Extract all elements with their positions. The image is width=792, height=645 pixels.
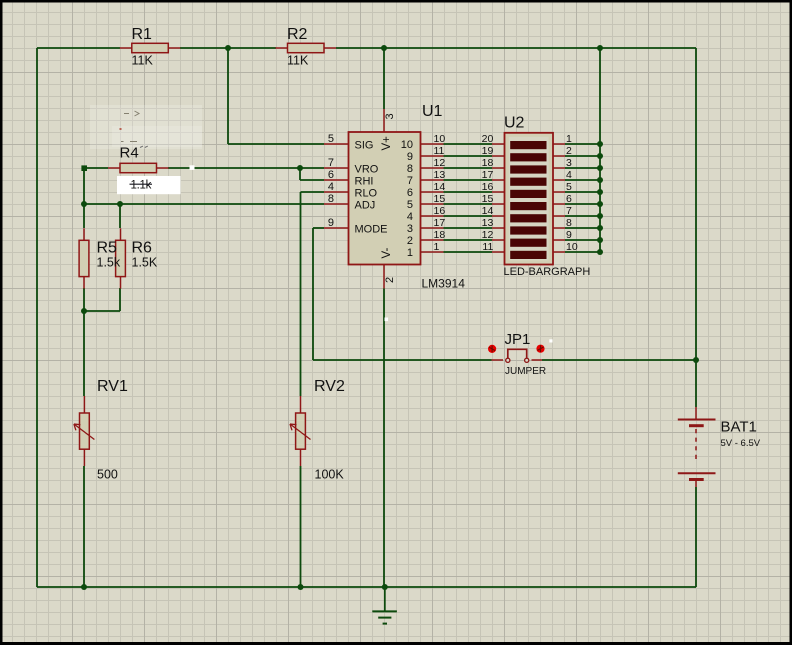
node junction ADJ / R6 column bbox=[117, 201, 123, 207]
node junction RV2/ground rail bbox=[298, 584, 304, 590]
svg-text:ADJ: ADJ bbox=[355, 200, 376, 212]
value R6 1.5K bbox=[132, 256, 158, 270]
wire ground stem bbox=[384, 587, 386, 611]
svg-text:19: 19 bbox=[482, 145, 494, 157]
svg-text:16: 16 bbox=[434, 205, 446, 217]
wire U1 pin row 7 to U2 bbox=[444, 215, 493, 217]
LED bargraph U2 body bbox=[505, 133, 554, 265]
svg-text:14: 14 bbox=[482, 205, 494, 217]
wire U1 V+ pin 3 to top rail bbox=[383, 48, 385, 109]
wire U2 pin 4 to LED bus bbox=[565, 177, 603, 183]
svg-text:500: 500 bbox=[97, 468, 118, 482]
value LED-BARGRAPH bbox=[504, 266, 591, 278]
wire U2 pin 2 to LED bus bbox=[565, 153, 603, 159]
svg-text:2: 2 bbox=[407, 235, 413, 247]
wire R4 left to vertical divider column bbox=[84, 168, 108, 228]
svg-text:5V - 6.5V: 5V - 6.5V bbox=[721, 438, 761, 449]
white speck on V- wire bbox=[385, 318, 389, 322]
U1 pin stubs left bbox=[324, 144, 349, 228]
wire U1 pin row 6 to U2 bbox=[444, 203, 493, 205]
svg-text:RLO: RLO bbox=[355, 188, 378, 200]
svg-text:3: 3 bbox=[384, 113, 396, 119]
wire R6 top drop bbox=[119, 204, 121, 228]
label JP1 bbox=[505, 331, 531, 348]
svg-text:MODE: MODE bbox=[355, 224, 388, 236]
wire right rail top (to battery +) bbox=[695, 48, 697, 407]
svg-text:1: 1 bbox=[566, 133, 572, 145]
svg-text:8: 8 bbox=[407, 163, 413, 175]
svg-text:17: 17 bbox=[434, 217, 446, 229]
op-amp U1 LM3914 body bbox=[349, 132, 421, 265]
svg-text:17: 17 bbox=[482, 169, 494, 181]
wire bottom ground rail bbox=[37, 586, 696, 588]
svg-text:VRO: VRO bbox=[355, 164, 379, 176]
value R5 1.5k bbox=[97, 256, 121, 270]
U1 V- rotated pin name bbox=[381, 247, 393, 258]
wire left rail vertical bbox=[36, 48, 38, 587]
U1 pin stubs right bbox=[421, 144, 444, 252]
wire R4 right to VRO/RHI junction bbox=[168, 167, 300, 169]
wire VRO stub link bbox=[300, 167, 324, 169]
wire RHI branch bbox=[300, 168, 324, 180]
wire U1 pin row 2 to U2 bbox=[444, 155, 493, 157]
wire U2 pin 7 to LED bus bbox=[565, 213, 603, 219]
svg-text:7: 7 bbox=[566, 205, 572, 217]
svg-text:8: 8 bbox=[328, 193, 334, 205]
value RV1 500 bbox=[97, 468, 118, 482]
U1 left external pin numbers bbox=[328, 133, 334, 229]
svg-text:7: 7 bbox=[328, 157, 334, 169]
U2 right external pin numbers bbox=[566, 133, 578, 253]
wire U1 V- pin 2 down to ground rail bbox=[383, 289, 385, 588]
svg-text:5: 5 bbox=[407, 199, 413, 211]
wire U2 pin 5 to LED bus bbox=[565, 189, 603, 195]
wire ADJ net horizontal to U1 pin 8 bbox=[84, 203, 324, 205]
svg-text:15: 15 bbox=[434, 193, 446, 205]
node junction V+ / top rail bbox=[381, 45, 387, 51]
svg-text:12: 12 bbox=[434, 157, 446, 169]
svg-text:U1: U1 bbox=[422, 103, 443, 120]
svg-text:3: 3 bbox=[407, 223, 413, 235]
svg-text:JUMPER: JUMPER bbox=[505, 366, 546, 377]
svg-text:6: 6 bbox=[328, 169, 334, 181]
resistor R5 bbox=[79, 228, 89, 288]
label R4 bbox=[120, 145, 139, 162]
svg-text:1.5k: 1.5k bbox=[97, 256, 121, 270]
svg-text:5: 5 bbox=[328, 133, 334, 145]
U2 pin stubs right bbox=[553, 144, 565, 252]
battery BAT1 bbox=[678, 407, 716, 487]
wire top rail from left rail to R1 bbox=[37, 47, 120, 49]
svg-text:RHI: RHI bbox=[355, 176, 374, 188]
wire U1 pin row 5 to U2 bbox=[444, 191, 493, 193]
svg-text:6: 6 bbox=[566, 193, 572, 205]
node junction R1/R2/U1-SIG drop bbox=[225, 45, 231, 51]
node junction jumper net / battery rail bbox=[693, 357, 699, 363]
wire U2 pin 8 to LED bus bbox=[565, 225, 603, 231]
node junction ADJ / R5 column bbox=[81, 201, 87, 207]
label U1 bbox=[422, 103, 443, 120]
svg-text:SIG: SIG bbox=[355, 140, 374, 152]
U2 LED segments bbox=[510, 141, 546, 259]
wire U2 pin 6 to LED bus bbox=[565, 201, 603, 207]
value R1 11K bbox=[132, 54, 154, 68]
svg-text:2: 2 bbox=[384, 277, 396, 283]
JP1 pin origin marker right bbox=[536, 345, 544, 353]
label RV2 bbox=[314, 378, 345, 395]
wire U1 pin row 4 to U2 bbox=[444, 179, 493, 181]
potentiometer RV2 bbox=[290, 396, 311, 466]
svg-text:12: 12 bbox=[482, 229, 494, 241]
U1 pin number 2 rotated bbox=[384, 277, 396, 283]
node junction R5/R6 bottom bbox=[81, 308, 87, 314]
wire RV1 bottom to ground rail bbox=[83, 466, 85, 587]
wire U1 pin row 8 to U2 bbox=[444, 227, 493, 229]
svg-text:10: 10 bbox=[401, 139, 413, 151]
svg-text:RV1: RV1 bbox=[97, 378, 128, 395]
U1 pin names bbox=[355, 140, 388, 236]
svg-text:15: 15 bbox=[482, 193, 494, 205]
wire U1 pin row 10 to U2 bbox=[444, 251, 493, 253]
svg-text:V+: V+ bbox=[381, 136, 393, 151]
label BAT1 bbox=[721, 419, 757, 436]
wire RLO net down to RV2 wiper bbox=[301, 192, 325, 396]
label RV1 bbox=[97, 378, 128, 395]
wire U1 pin row 3 to U2 bbox=[444, 167, 493, 169]
wire R2 to top-right corner bbox=[336, 47, 696, 49]
svg-text:1: 1 bbox=[434, 241, 440, 253]
svg-text:4: 4 bbox=[566, 169, 572, 181]
label R6 bbox=[132, 240, 153, 257]
svg-text:100K: 100K bbox=[315, 468, 345, 482]
label U2 bbox=[504, 115, 525, 132]
JP1 pin origin marker left bbox=[488, 345, 496, 353]
wire jumper right segment to battery rail bbox=[542, 359, 696, 361]
svg-text:7: 7 bbox=[407, 175, 413, 187]
svg-text:R6: R6 bbox=[132, 240, 153, 257]
svg-text:LM3914: LM3914 bbox=[422, 277, 466, 291]
resistor R6 bbox=[116, 228, 126, 288]
svg-text:R5: R5 bbox=[97, 240, 118, 257]
node junction RV1/ground rail bbox=[81, 584, 87, 590]
svg-text:11: 11 bbox=[482, 241, 493, 253]
svg-text:LED-BARGRAPH: LED-BARGRAPH bbox=[504, 266, 591, 278]
label R5 bbox=[97, 240, 118, 257]
svg-text:2: 2 bbox=[566, 145, 572, 157]
svg-text:1.5K: 1.5K bbox=[132, 256, 158, 270]
U1 pin number 3 rotated bbox=[384, 113, 396, 119]
wire U2 pin 3 to LED bus bbox=[565, 165, 603, 171]
label R1 bbox=[132, 26, 153, 43]
wire U1 pin row 1 to U2 bbox=[444, 143, 493, 145]
svg-text:RV2: RV2 bbox=[314, 378, 345, 395]
svg-text:18: 18 bbox=[482, 157, 494, 169]
white-out rectangle over R4 value bbox=[117, 176, 181, 194]
svg-text:BAT1: BAT1 bbox=[721, 419, 757, 436]
svg-text:R1: R1 bbox=[132, 26, 153, 43]
value JUMPER bbox=[505, 366, 546, 377]
U1 internal right pin numbers bbox=[401, 139, 413, 259]
node junction R4/VRO/RHI bbox=[297, 165, 303, 171]
wire U2 pin 1 to LED bus bbox=[565, 141, 603, 147]
ground symbol bbox=[372, 611, 397, 623]
node junction ground / rail bbox=[382, 584, 388, 590]
U1 V+ rotated pin name bbox=[381, 136, 393, 151]
svg-text:20: 20 bbox=[482, 133, 494, 145]
resistor R2 bbox=[276, 43, 337, 52]
svg-text:9: 9 bbox=[328, 217, 334, 229]
svg-text:10: 10 bbox=[566, 241, 578, 253]
wire RV2 bottom to ground rail bbox=[300, 466, 302, 587]
svg-text:6: 6 bbox=[407, 187, 413, 199]
svg-text:1.1k: 1.1k bbox=[131, 179, 152, 191]
svg-text:U2: U2 bbox=[504, 115, 525, 132]
white speck near JP1 bbox=[549, 339, 552, 342]
wire U2 pin 10 to LED bus bbox=[565, 249, 603, 255]
svg-text:5: 5 bbox=[566, 181, 572, 193]
svg-text:3: 3 bbox=[566, 157, 572, 169]
wire labels right near U2 bbox=[482, 133, 494, 253]
svg-text:13: 13 bbox=[434, 169, 446, 181]
wire labels left of U2 wires bbox=[434, 133, 446, 253]
svg-text:9: 9 bbox=[566, 229, 572, 241]
potentiometer RV1 bbox=[74, 396, 95, 466]
wire jumper left segment bbox=[313, 359, 492, 361]
svg-text:16: 16 bbox=[482, 181, 494, 193]
resistor R4 bbox=[108, 163, 169, 172]
svg-text:R4: R4 bbox=[120, 145, 139, 162]
svg-text:11K: 11K bbox=[132, 54, 154, 68]
svg-text:4: 4 bbox=[407, 211, 413, 223]
value 5V - 6.5V bbox=[721, 438, 761, 449]
value R2 11K bbox=[287, 54, 309, 68]
svg-text:13: 13 bbox=[482, 217, 494, 229]
node junction top rail / LED bus bbox=[597, 45, 603, 51]
wire U1 pin row 9 to U2 bbox=[444, 239, 493, 241]
node corner R4-left bbox=[81, 165, 87, 171]
U2 pin stubs left bbox=[492, 144, 505, 252]
svg-text:10: 10 bbox=[434, 133, 446, 145]
struck value 1.1k bbox=[130, 179, 153, 191]
U1 pin 2 stub bottom bbox=[383, 265, 385, 289]
wire SIG net: drop from top rail to U1 pin 5 bbox=[228, 48, 324, 144]
value LM3914 bbox=[422, 277, 466, 291]
label R2 bbox=[287, 26, 308, 43]
svg-text:11: 11 bbox=[434, 145, 445, 157]
wire LED bus vertical bbox=[599, 48, 601, 252]
svg-text:11K: 11K bbox=[287, 54, 309, 68]
svg-text:V-: V- bbox=[381, 247, 393, 258]
value RV2 100K bbox=[315, 468, 345, 482]
wire R1 to R2 segment bbox=[180, 47, 276, 49]
svg-text:1: 1 bbox=[407, 247, 413, 259]
svg-text:8: 8 bbox=[566, 217, 572, 229]
wire right rail bottom (battery - to ground rail) bbox=[695, 487, 697, 587]
svg-text:18: 18 bbox=[434, 229, 446, 241]
svg-text:4: 4 bbox=[328, 181, 334, 193]
resistor R1 bbox=[120, 43, 181, 52]
svg-text:9: 9 bbox=[407, 151, 413, 163]
wire MODE net down to jumper row bbox=[313, 228, 324, 360]
wire U2 pin 9 to LED bus bbox=[565, 237, 603, 243]
white speck on R4 wire bbox=[190, 165, 195, 170]
svg-text:14: 14 bbox=[434, 181, 446, 193]
jumper JP1 bbox=[492, 349, 543, 362]
svg-text:JP1: JP1 bbox=[505, 331, 531, 348]
svg-text:R2: R2 bbox=[287, 26, 308, 43]
ghost smear artifact above R4 bbox=[90, 105, 202, 149]
wire R5 bottom / R6 bottom join bbox=[84, 288, 120, 396]
U1 pin 3 stub top bbox=[383, 109, 385, 132]
